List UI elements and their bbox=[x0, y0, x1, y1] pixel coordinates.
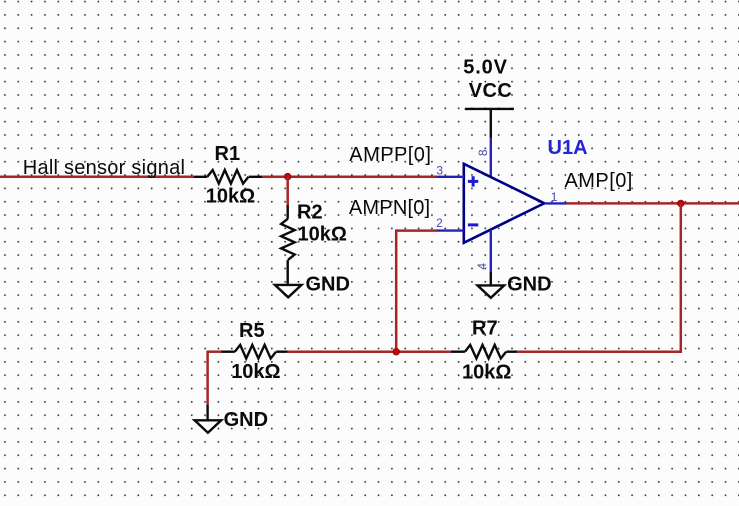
svg-text:R7: R7 bbox=[472, 318, 498, 340]
svg-text:GND: GND bbox=[306, 274, 350, 296]
svg-text:AMP[0]: AMP[0] bbox=[565, 170, 633, 192]
svg-text:10kΩ: 10kΩ bbox=[231, 361, 280, 383]
junction at AMPN/feedback bbox=[393, 348, 400, 355]
svg-text:10kΩ: 10kΩ bbox=[206, 185, 255, 207]
resistor R2 bbox=[281, 205, 295, 285]
svg-text:R2: R2 bbox=[297, 201, 323, 223]
op-amp inverting - mark bbox=[468, 223, 478, 226]
wire feedback vertical down bbox=[680, 203, 683, 352]
pin 2 lead bbox=[437, 229, 464, 231]
svg-text:10kΩ: 10kΩ bbox=[298, 224, 347, 246]
wire left corner to R5 bbox=[208, 350, 222, 353]
junction at output/feedback bbox=[678, 200, 685, 207]
wire R7 to feedback corner bbox=[517, 350, 682, 353]
wire AMPN horizontal to pin 2 bbox=[395, 229, 436, 232]
wire down to ground from corner bbox=[206, 351, 209, 405]
wire AMPN vertical from feedback node bbox=[395, 230, 398, 352]
wire R5 to R7 bbox=[288, 350, 451, 353]
svg-text:4: 4 bbox=[475, 263, 489, 270]
wire op-amp output AMP[0] bbox=[567, 202, 739, 205]
pin 3 lead bbox=[437, 176, 464, 178]
svg-text:GND: GND bbox=[224, 409, 268, 431]
ground for R2 bbox=[275, 285, 302, 297]
ground for R5 bbox=[195, 420, 222, 432]
op-amp U1A bbox=[464, 164, 545, 243]
svg-text:R1: R1 bbox=[215, 143, 241, 165]
resistor R1 bbox=[194, 170, 262, 184]
svg-text:AMPN[0]: AMPN[0] bbox=[349, 197, 430, 219]
svg-text:3: 3 bbox=[436, 163, 443, 177]
svg-text:8: 8 bbox=[476, 149, 490, 156]
wire VCC to op-amp pin 8 bbox=[490, 109, 492, 138]
pin 1 lead (output) bbox=[544, 202, 566, 204]
wire R1 to op-amp noninverting input bbox=[262, 176, 436, 179]
svg-text:GND: GND bbox=[507, 274, 551, 296]
svg-text:5.0V: 5.0V bbox=[463, 56, 508, 78]
ground for op-amp pin 4 bbox=[478, 285, 505, 297]
svg-text:VCC: VCC bbox=[469, 80, 512, 102]
svg-text:R5: R5 bbox=[239, 320, 265, 342]
wire junction down to R2 bbox=[286, 177, 289, 205]
svg-text:2: 2 bbox=[436, 216, 443, 230]
wire Hall sensor input to R1 bbox=[0, 176, 194, 179]
op-amp noninverting + mark bbox=[468, 176, 478, 186]
svg-text:AMPP[0]: AMPP[0] bbox=[349, 144, 431, 166]
resistor R7 bbox=[451, 345, 518, 359]
junction at R1/R2 bbox=[284, 173, 291, 180]
svg-text:Hall sensor signal: Hall sensor signal bbox=[23, 157, 185, 179]
svg-text:1: 1 bbox=[551, 190, 558, 204]
resistor R5 bbox=[222, 345, 288, 359]
svg-text:U1A: U1A bbox=[548, 137, 588, 159]
svg-text:10kΩ: 10kΩ bbox=[462, 362, 511, 384]
pin 4 lead bbox=[490, 230, 492, 272]
power VCC 5.0V symbol bbox=[465, 108, 514, 110]
